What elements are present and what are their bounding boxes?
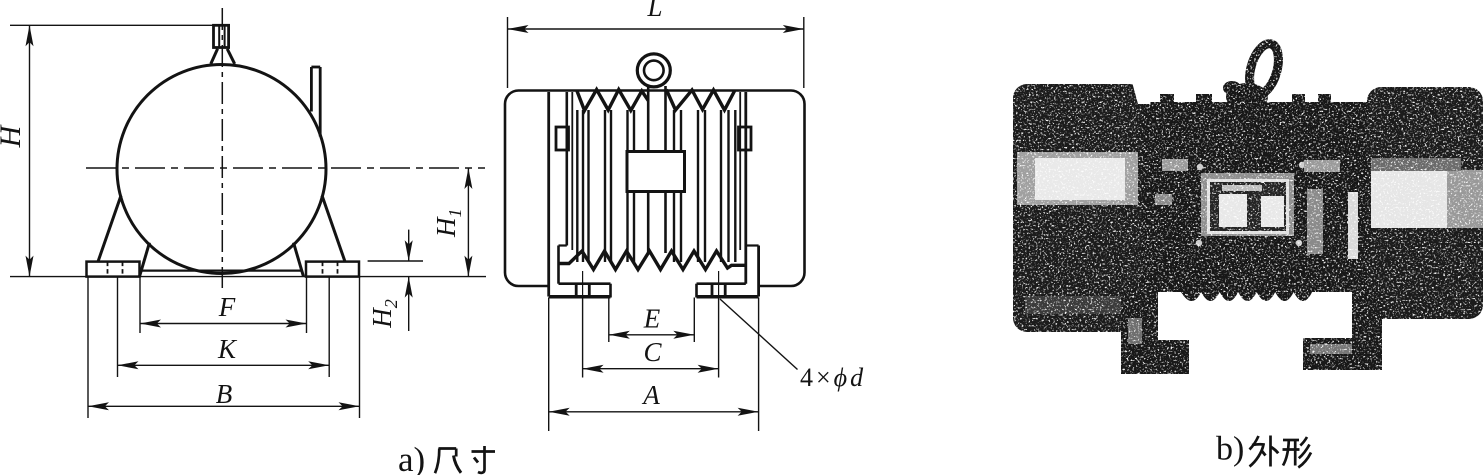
- photo: left cover highlight band: [1017, 152, 1138, 205]
- photo: nameplate windows: [1219, 194, 1247, 227]
- dimension H2 upper stem: [408, 230, 410, 262]
- photo: halftone grain overlay: [1008, 38, 1484, 378]
- photo: bellows white background: [1158, 292, 1354, 334]
- photo: right foot: [1352, 288, 1382, 370]
- dimension C line: [583, 368, 719, 370]
- right foot hole centerline: [718, 271, 720, 297]
- motor body outline (side view): [505, 91, 805, 287]
- caption glyph xing2 (形): [1283, 439, 1299, 442]
- top cooling-fin zigzag right: [666, 90, 734, 111]
- photo: small light marks left: [1162, 159, 1188, 171]
- H top extension line: [10, 24, 214, 26]
- left leg outer edge: [98, 196, 121, 262]
- left foot hole centerline: [582, 271, 584, 297]
- bottom cooling-fin zigzag: [559, 251, 746, 270]
- dimension A line: [549, 411, 759, 413]
- caption glyph cun4 (寸): [472, 450, 496, 453]
- cooling fin vertical lines: [576, 110, 578, 262]
- svg-text:C: C: [643, 337, 662, 367]
- L extension lines: [507, 17, 509, 88]
- svg-text:E: E: [643, 304, 661, 334]
- leader line to bolt hole: [720, 299, 798, 370]
- dimension F extension lines: [139, 278, 141, 334]
- right foot plate: [306, 262, 359, 277]
- svg-text:A: A: [641, 380, 660, 410]
- photo: bolt dots: [1197, 164, 1203, 170]
- photo: right cover highlight band: [1371, 170, 1483, 228]
- lifting eye bracket: [647, 86, 650, 152]
- dimension L line: [508, 28, 804, 30]
- photo: nameplate outer frame: [1201, 173, 1294, 236]
- dimension C extension lines: [582, 297, 584, 378]
- left side tab: [556, 127, 569, 150]
- eyebolt: [214, 25, 229, 47]
- photo: small light marks right: [1304, 160, 1340, 172]
- svg-text:b): b): [1216, 431, 1244, 468]
- photo: cable gland blob: [1226, 83, 1268, 111]
- dimension K line: [118, 364, 330, 366]
- right end cap inner lines: [744, 92, 747, 284]
- svg-text:H: H: [0, 123, 27, 148]
- left plate hole dashed edges: [107, 262, 109, 277]
- right leg outer edge: [322, 196, 345, 262]
- photo: bellows bumps: [1181, 292, 1312, 301]
- svg-text:a): a): [398, 440, 425, 475]
- dimension H line: [29, 25, 31, 276]
- dimension H2 lower stem: [408, 277, 410, 331]
- svg-text:K: K: [217, 334, 238, 364]
- photo: left foot: [1121, 290, 1158, 374]
- dimension A extension lines: [548, 298, 550, 432]
- right side tab: [739, 127, 752, 150]
- horizontal centerline: [86, 167, 485, 169]
- svg-text:4×ϕd: 4×ϕd: [800, 363, 866, 392]
- svg-text:B: B: [216, 379, 233, 409]
- caption glyph chi3 (尺): [439, 447, 457, 450]
- base frame line between feet: [141, 270, 302, 272]
- vertical centerline: [221, 8, 223, 288]
- svg-text:L: L: [646, 0, 662, 22]
- photo: body top bumps: [1160, 94, 1174, 106]
- right foot (side view): [697, 282, 746, 285]
- dimension E line: [609, 334, 695, 336]
- left step to foot: [559, 244, 567, 246]
- photo: right body bright strips: [1307, 189, 1323, 254]
- left end cap inner lines: [547, 92, 550, 297]
- photo: right end cover cylinder: [1367, 87, 1483, 319]
- left foot (side view): [559, 282, 611, 285]
- right plate hole dashed edges: [322, 262, 324, 277]
- H2 top extension line: [368, 260, 423, 262]
- dimension F line: [140, 323, 307, 325]
- dimension H1 line: [467, 168, 469, 277]
- top cooling-fin zigzag left: [577, 90, 648, 111]
- terminal pin on circle: [310, 67, 313, 112]
- dimension E extension lines: [608, 298, 610, 343]
- left leg inner edge: [140, 243, 150, 277]
- svg-text:F: F: [218, 292, 236, 322]
- photo: left end cover cylinder: [1013, 84, 1146, 332]
- caption glyph wai4 (外): [1250, 436, 1259, 450]
- dimension B line: [88, 405, 360, 407]
- lifting eye ring: [637, 54, 670, 87]
- photo: left cover lower streak: [1025, 296, 1130, 314]
- dimension K extension lines: [117, 278, 119, 378]
- nameplate box: [627, 152, 685, 192]
- motor body circle: [117, 65, 326, 274]
- right leg inner edge: [294, 243, 304, 277]
- dimension B extension lines: [87, 278, 89, 419]
- ground baseline: [10, 276, 486, 278]
- photo: white wedge between cover and body: [1132, 82, 1157, 104]
- photo: cable loop ring: [1244, 40, 1283, 97]
- photo: center motor body: [1142, 102, 1367, 292]
- left foot plate: [87, 262, 140, 277]
